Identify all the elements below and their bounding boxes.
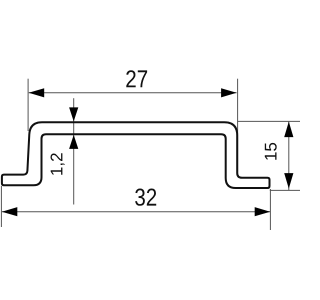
dimension line 32: [2, 211, 270, 213]
extension line right of dim 32: [269, 189, 271, 230]
arrowhead up of dim 1,2: [69, 135, 78, 149]
dimension text 32: [135, 189, 156, 206]
dimension text 15: [265, 143, 277, 160]
extension line left of dim 27: [27, 79, 29, 131]
dimension line 15: [288, 122, 290, 190]
arrowhead up of dim 15: [284, 122, 293, 138]
extension line bottom of dim 15: [270, 189, 300, 191]
arrowhead down of dim 1,2: [69, 107, 78, 121]
dimension text 27: [126, 70, 147, 87]
dimension line 1,2 (vertical through arrows): [73, 98, 75, 204]
arrowhead left of dim 27: [29, 88, 45, 97]
arrowhead right of dim 27: [221, 88, 237, 97]
arrowhead right of dim 32: [255, 207, 271, 216]
extension line top of dim 15: [237, 120, 300, 122]
arrowhead down of dim 15: [284, 173, 293, 189]
extension line left of dim 32: [0, 186, 2, 227]
extension line right of dim 27: [237, 79, 239, 176]
arrowhead left of dim 32: [2, 207, 17, 216]
dimension text 1,2: [51, 153, 65, 175]
dimension line 27: [29, 92, 237, 94]
DIN rail hat profile cross-section outline: [2, 122, 270, 188]
